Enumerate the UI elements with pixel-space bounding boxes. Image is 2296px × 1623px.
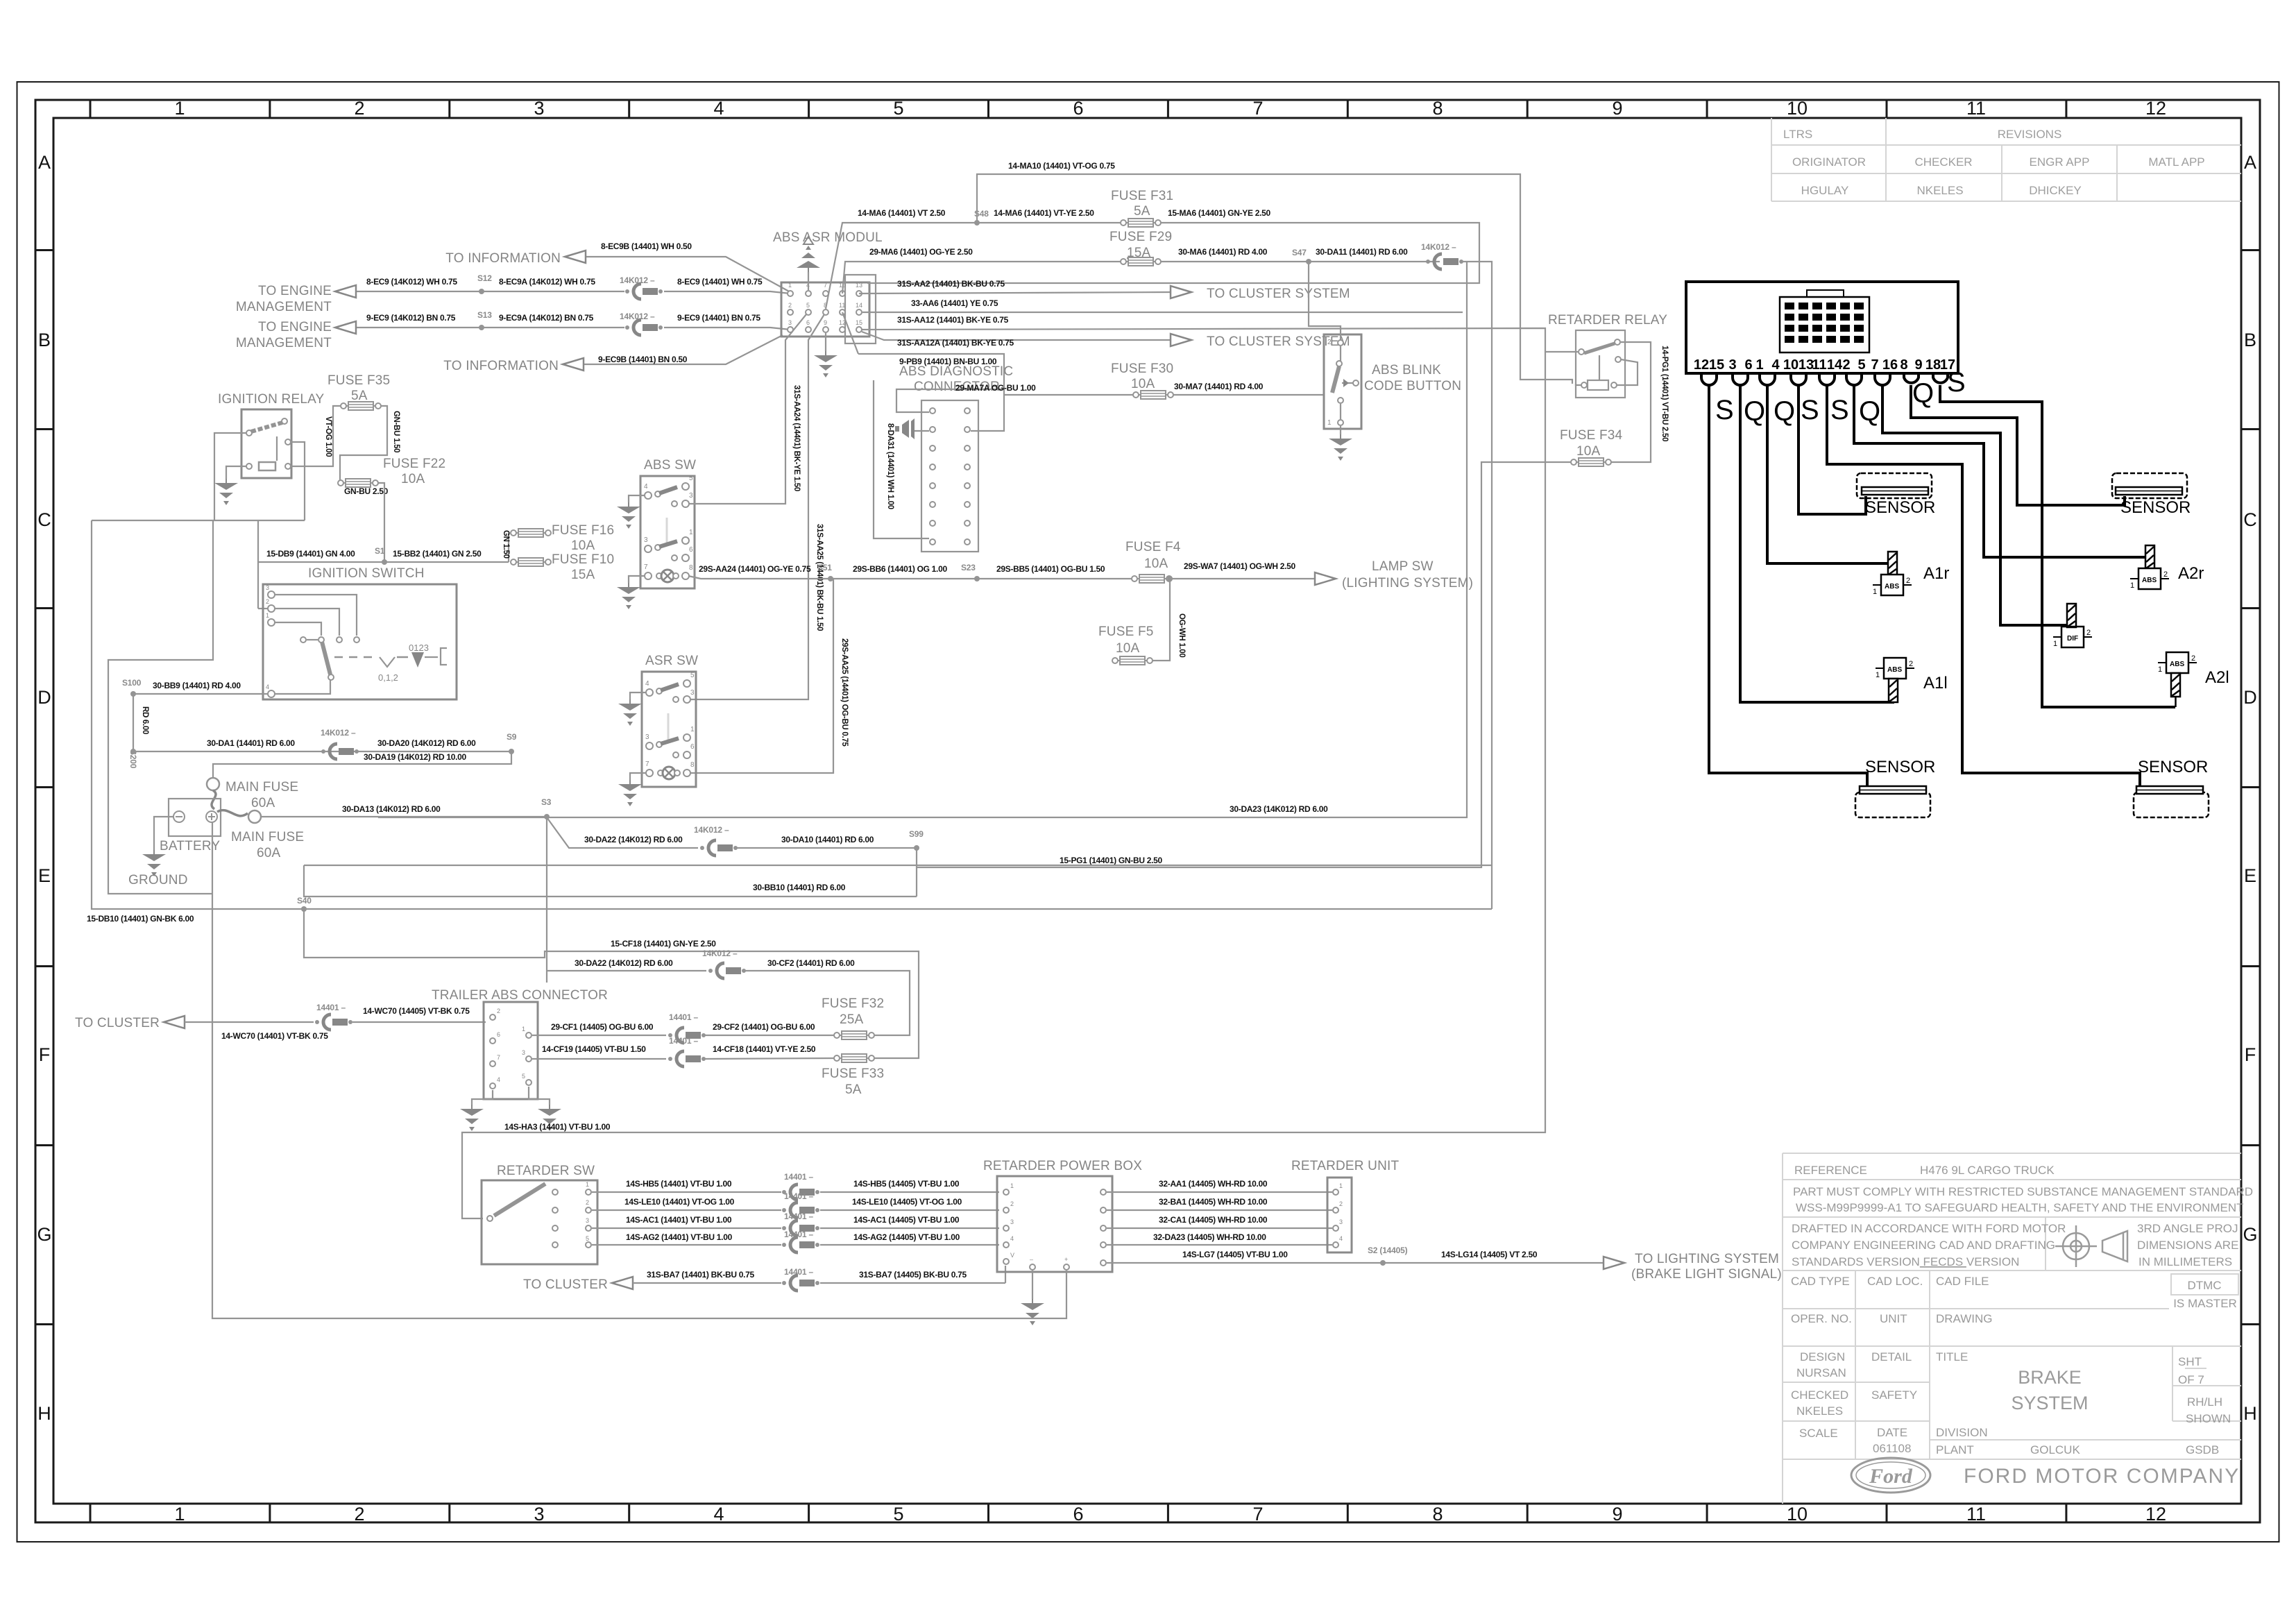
svg-text:IGNITION RELAY: IGNITION RELAY xyxy=(218,392,325,407)
svg-text:29-MA7A OG-BU 1.00: 29-MA7A OG-BU 1.00 xyxy=(955,383,1036,393)
svg-text:3: 3 xyxy=(689,492,693,500)
S3 down and 30-DA22/30-DA10 line xyxy=(547,817,917,983)
svg-text:5: 5 xyxy=(522,1073,525,1080)
svg-text:SAFETY: SAFETY xyxy=(1871,1388,1917,1402)
svg-text:8-EC9A (14K012) WH 0.75: 8-EC9A (14K012) WH 0.75 xyxy=(499,277,595,287)
svg-text:14401 –: 14401 – xyxy=(669,1036,699,1046)
svg-text:6: 6 xyxy=(1073,1504,1083,1524)
svg-text:14S-LG7 (14405) VT-BU 1.00: 14S-LG7 (14405) VT-BU 1.00 xyxy=(1182,1250,1288,1259)
relay switch-in wire to 750 line xyxy=(214,433,246,520)
svg-text:FUSE F5: FUSE F5 xyxy=(1098,624,1154,639)
wire 9-EC9B to information xyxy=(582,335,783,364)
svg-text:4: 4 xyxy=(645,680,649,688)
svg-text:ABS SW: ABS SW xyxy=(644,458,696,473)
wire 30-MA6 from F29 to S47 xyxy=(1160,261,1440,262)
wire 31S-AA24 from ABS SW pin3 up to module xyxy=(688,314,806,504)
svg-text:2: 2 xyxy=(2086,629,2091,637)
svg-text:REFERENCE: REFERENCE xyxy=(1794,1164,1867,1177)
svg-text:30-DA11 (14401) RD 6.00: 30-DA11 (14401) RD 6.00 xyxy=(1316,247,1408,257)
svg-text:1: 1 xyxy=(1010,1182,1014,1189)
power box plus wire to long bottom line xyxy=(212,822,1066,1318)
svg-text:S: S xyxy=(1830,395,1849,425)
svg-text:30-MA6 (14401) RD 4.00: 30-MA6 (14401) RD 4.00 xyxy=(1178,247,1268,257)
svg-text:G: G xyxy=(2243,1224,2257,1245)
svg-text:9-EC9 (14401) BN 0.75: 9-EC9 (14401) BN 0.75 xyxy=(677,313,760,323)
svg-text:TO INFORMATION: TO INFORMATION xyxy=(443,359,559,373)
svg-text:CAD TYPE: CAD TYPE xyxy=(1791,1275,1850,1288)
dashed selector line xyxy=(334,656,378,658)
svg-text:29S-AA25 (14401) OG-BU 0.75: 29S-AA25 (14401) OG-BU 0.75 xyxy=(840,638,849,747)
svg-text:15: 15 xyxy=(1709,357,1724,373)
svg-text:14-MA10 (14401) VT-OG 0.75: 14-MA10 (14401) VT-OG 0.75 xyxy=(1008,161,1115,171)
wire 31S-AA2 from pin 13 to cluster arrow xyxy=(859,292,1172,294)
wire 31S-AA25 module to ASR SW xyxy=(690,314,824,699)
svg-text:SENSOR: SENSOR xyxy=(2120,498,2191,517)
svg-text:32-BA1 (14405) WH-RD 10.00: 32-BA1 (14405) WH-RD 10.00 xyxy=(1159,1197,1268,1207)
trailer connector grounds xyxy=(472,1087,550,1105)
svg-text:H: H xyxy=(37,1403,51,1424)
svg-text:14-PG1 (14401) VT-BU 2.50: 14-PG1 (14401) VT-BU 2.50 xyxy=(1660,346,1669,441)
svg-text:10A: 10A xyxy=(1576,444,1601,459)
svg-text:9-EC9A (14K012) BN 0.75: 9-EC9A (14K012) BN 0.75 xyxy=(499,313,594,323)
svg-text:15-DB10 (14401) GN-BK 6.00: 15-DB10 (14401) GN-BK 6.00 xyxy=(87,914,194,924)
wire pins 7/16 to valve DIF xyxy=(1882,385,2068,625)
svg-text:A2r: A2r xyxy=(2178,564,2204,583)
battery xyxy=(169,799,221,836)
svg-text:12: 12 xyxy=(2145,98,2166,119)
svg-text:GN-BU 2.50: GN-BU 2.50 xyxy=(344,486,389,496)
svg-text:TO CLUSTER SYSTEM: TO CLUSTER SYSTEM xyxy=(1207,287,1350,301)
svg-text:6: 6 xyxy=(690,743,695,751)
svg-text:1: 1 xyxy=(689,529,693,536)
svg-text:2: 2 xyxy=(788,302,792,309)
wires power box to retarder unit xyxy=(1107,1192,1332,1245)
svg-text:IS MASTER: IS MASTER xyxy=(2173,1297,2237,1310)
svg-text:0123: 0123 xyxy=(409,643,429,653)
svg-text:A: A xyxy=(2244,152,2256,173)
svg-text:S: S xyxy=(1715,395,1734,425)
svg-text:A: A xyxy=(38,152,51,173)
svg-text:2: 2 xyxy=(354,1504,364,1524)
wire 30-DA23 vertical branch xyxy=(379,262,1467,817)
svg-text:31S-BA7 (14401) BK-BU 0.75: 31S-BA7 (14401) BK-BU 0.75 xyxy=(647,1270,755,1280)
30-DA22 / 30-CF2 wire to fuse F32 xyxy=(547,971,910,1035)
wire 29-MA6 diagonal from pin 10 to fuse F29 xyxy=(842,262,1122,294)
svg-text:30-BB9 (14401) RD 4.00: 30-BB9 (14401) RD 4.00 xyxy=(153,681,241,690)
svg-text:A1r: A1r xyxy=(1923,564,1949,583)
svg-text:14401 –: 14401 – xyxy=(784,1172,814,1182)
svg-text:(LIGHTING SYSTEM): (LIGHTING SYSTEM) xyxy=(1342,576,1473,590)
svg-text:CHECKER: CHECKER xyxy=(1914,155,1972,169)
svg-text:10: 10 xyxy=(1787,1504,1808,1524)
svg-text:8: 8 xyxy=(1432,98,1443,119)
svg-text:DIMENSIONS ARE: DIMENSIONS ARE xyxy=(2137,1239,2238,1252)
svg-text:TRAILER ABS CONNECTOR: TRAILER ABS CONNECTOR xyxy=(432,988,608,1003)
svg-text:1: 1 xyxy=(174,1504,185,1524)
relay ground xyxy=(226,466,246,479)
svg-text:0,1,2: 0,1,2 xyxy=(378,672,398,683)
svg-text:14-MA6 (14401) VT 2.50: 14-MA6 (14401) VT 2.50 xyxy=(858,208,946,218)
svg-text:061108: 061108 xyxy=(1873,1442,1911,1455)
svg-text:15-MA6 (14401) GN-YE 2.50: 15-MA6 (14401) GN-YE 2.50 xyxy=(1168,208,1271,218)
svg-text:14: 14 xyxy=(1827,357,1843,373)
svg-text:IGNITION SWITCH: IGNITION SWITCH xyxy=(308,566,425,581)
wire 30-MA7 from F30 to blink button xyxy=(1173,394,1324,396)
ABS blink code button xyxy=(1324,334,1361,429)
svg-text:14S-LE10 (14401) VT-OG 1.00: 14S-LE10 (14401) VT-OG 1.00 xyxy=(624,1197,735,1207)
svg-text:7: 7 xyxy=(1252,1504,1263,1524)
svg-text:2: 2 xyxy=(1339,1200,1343,1207)
svg-text:12: 12 xyxy=(1694,357,1709,373)
svg-text:SENSOR: SENSOR xyxy=(1865,758,1935,776)
3rd angle projection symbol xyxy=(2055,1225,2127,1267)
svg-text:S: S xyxy=(1947,367,1966,398)
svg-text:GN 1.50: GN 1.50 xyxy=(502,530,510,559)
svg-text:TO INFORMATION: TO INFORMATION xyxy=(445,251,561,266)
svg-text:(BRAKE LIGHT SIGNAL): (BRAKE LIGHT SIGNAL) xyxy=(1631,1267,1782,1282)
svg-text:1: 1 xyxy=(690,726,695,733)
svg-text:GOLCUK: GOLCUK xyxy=(2030,1443,2080,1456)
svg-text:11: 11 xyxy=(1966,1504,1986,1524)
wire F4 junction down to fuse F5 xyxy=(1152,579,1170,661)
svg-text:ASR SW: ASR SW xyxy=(645,654,698,668)
svg-text:5A: 5A xyxy=(1134,204,1150,219)
svg-text:11: 11 xyxy=(1812,357,1826,373)
svg-text:1: 1 xyxy=(1755,357,1763,373)
svg-text:32-AA1 (14405) WH-RD 10.00: 32-AA1 (14405) WH-RD 10.00 xyxy=(1159,1179,1268,1189)
svg-text:NKELES: NKELES xyxy=(1796,1404,1843,1418)
svg-text:ENGR APP: ENGR APP xyxy=(2030,155,2090,169)
svg-text:3: 3 xyxy=(534,1504,544,1524)
row ticks left and right xyxy=(35,249,53,251)
svg-text:5: 5 xyxy=(806,302,810,309)
svg-text:2: 2 xyxy=(1010,1200,1014,1207)
svg-text:8: 8 xyxy=(689,564,693,572)
svg-text:REVISIONS: REVISIONS xyxy=(1998,128,2062,141)
svg-text:SHOWN: SHOWN xyxy=(2186,1412,2231,1425)
svg-text:STANDARDS VERSION FECDS VERSIO: STANDARDS VERSION FECDS VERSION xyxy=(1792,1255,2019,1268)
svg-text:BATTERY: BATTERY xyxy=(160,839,220,853)
relay coil right small loop xyxy=(1617,359,1638,385)
svg-text:–: – xyxy=(1030,1256,1033,1263)
valve DIF xyxy=(2067,604,2076,627)
svg-text:ABS BLINK: ABS BLINK xyxy=(1372,363,1441,377)
svg-text:30-DA10 (14401) RD 6.00: 30-DA10 (14401) RD 6.00 xyxy=(781,835,874,844)
wire pins 2/5 to valve A2r xyxy=(1854,385,2147,557)
svg-text:8: 8 xyxy=(1432,1504,1443,1524)
wire pins 3/6 to valve A1l xyxy=(1740,385,1894,702)
svg-text:S51: S51 xyxy=(817,563,832,572)
relay mid pin wire to 750 line xyxy=(291,442,305,520)
svg-text:9: 9 xyxy=(1612,1504,1622,1524)
svg-text:CHECKED: CHECKED xyxy=(1791,1388,1848,1402)
svg-text:E: E xyxy=(38,865,51,886)
svg-text:2: 2 xyxy=(266,598,269,605)
svg-text:S: S xyxy=(1801,395,1819,425)
arrow to engine management 2 xyxy=(335,321,356,334)
S40 down branch to 15-CF18 line xyxy=(304,909,919,1058)
svg-text:29S-BB5 (14401) OG-BU 1.50: 29S-BB5 (14401) OG-BU 1.50 xyxy=(996,564,1105,574)
14S-LG7 wire with S2 to lighting arrow xyxy=(1107,1262,1604,1264)
svg-text:1: 1 xyxy=(2053,640,2057,648)
wire 29S-AA25 S51 down to ASR SW xyxy=(690,579,833,773)
wire F35 right down to F22 xyxy=(340,406,387,483)
svg-text:FUSE F10: FUSE F10 xyxy=(552,552,614,567)
wire 30-DA13 to S3 xyxy=(261,816,547,817)
svg-text:10: 10 xyxy=(1783,357,1798,373)
svg-text:TITLE: TITLE xyxy=(1936,1350,1968,1363)
svg-text:MANAGEMENT: MANAGEMENT xyxy=(236,336,332,350)
svg-text:TO LIGHTING SYSTEM: TO LIGHTING SYSTEM xyxy=(1635,1252,1779,1266)
trailer connector box xyxy=(484,1002,538,1099)
svg-text:CODE BUTTON: CODE BUTTON xyxy=(1364,379,1461,393)
svg-text:10A: 10A xyxy=(1131,377,1155,391)
svg-text:SENSOR: SENSOR xyxy=(2138,758,2208,776)
svg-text:CAD FILE: CAD FILE xyxy=(1936,1275,1989,1288)
svg-text:7: 7 xyxy=(1252,98,1263,119)
rotary lever xyxy=(322,642,330,674)
svg-text:1: 1 xyxy=(522,1026,525,1033)
wire F34 left to 15-PG1 line xyxy=(917,462,1572,867)
blink button ground xyxy=(1340,426,1341,434)
svg-text:IN MILLIMETERS: IN MILLIMETERS xyxy=(2138,1255,2232,1268)
svg-text:FUSE F31: FUSE F31 xyxy=(1111,189,1173,203)
switch internal wires xyxy=(275,595,357,694)
arrow to engine management 1 xyxy=(335,285,356,298)
svg-text:9: 9 xyxy=(1612,98,1622,119)
svg-text:S13: S13 xyxy=(477,310,492,320)
svg-text:10A: 10A xyxy=(401,472,425,486)
svg-text:8-EC9 (14401) WH 0.75: 8-EC9 (14401) WH 0.75 xyxy=(677,277,763,287)
svg-text:FUSE F30: FUSE F30 xyxy=(1111,362,1173,376)
svg-text:FUSE F33: FUSE F33 xyxy=(822,1067,884,1081)
inner 18-pos connector xyxy=(1780,290,1869,352)
svg-text:GSDB: GSDB xyxy=(2186,1443,2219,1456)
wire pins 8/9 to top-right sensor xyxy=(1911,385,2125,505)
svg-text:1: 1 xyxy=(788,282,792,289)
svg-text:13: 13 xyxy=(856,282,862,289)
svg-text:RETARDER SW: RETARDER SW xyxy=(497,1164,595,1178)
svg-text:Q: Q xyxy=(1859,396,1880,427)
svg-text:14: 14 xyxy=(856,302,862,309)
svg-text:SYSTEM: SYSTEM xyxy=(2011,1393,2088,1413)
S100 wire 30-BB9 xyxy=(133,693,268,695)
svg-text:TO CLUSTER: TO CLUSTER xyxy=(523,1277,608,1292)
svg-text:14S-AC1 (14401) VT-BU 1.00: 14S-AC1 (14401) VT-BU 1.00 xyxy=(626,1215,732,1225)
svg-text:Q: Q xyxy=(1744,396,1765,427)
svg-text:14401 –: 14401 – xyxy=(784,1267,814,1277)
svg-text:30-CF2 (14401) RD 6.00: 30-CF2 (14401) RD 6.00 xyxy=(767,958,855,968)
module pins rows xyxy=(788,291,862,332)
svg-text:2: 2 xyxy=(497,1008,500,1014)
svg-text:DATE: DATE xyxy=(1877,1426,1907,1439)
svg-text:2: 2 xyxy=(1327,339,1332,346)
S40 rectangle top line xyxy=(304,865,1492,866)
svg-text:8: 8 xyxy=(1900,357,1907,373)
svg-text:MANAGEMENT: MANAGEMENT xyxy=(236,300,332,314)
svg-text:15A: 15A xyxy=(571,568,595,582)
svg-text:14-WC70 (14405) VT-BK 0.75: 14-WC70 (14405) VT-BK 0.75 xyxy=(363,1006,470,1016)
svg-text:OPER. NO.: OPER. NO. xyxy=(1791,1312,1852,1325)
svg-text:UNIT: UNIT xyxy=(1880,1312,1907,1325)
svg-text:S1: S1 xyxy=(375,546,385,556)
svg-text:14S-AC1 (14405) VT-BU 1.00: 14S-AC1 (14405) VT-BU 1.00 xyxy=(853,1215,960,1225)
module bottom ground xyxy=(825,333,826,351)
svg-text:RETARDER POWER BOX: RETARDER POWER BOX xyxy=(983,1159,1142,1173)
svg-text:32-DA23 (14405) WH-RD 10.00: 32-DA23 (14405) WH-RD 10.00 xyxy=(1153,1232,1266,1242)
svg-text:3: 3 xyxy=(645,733,649,741)
svg-text:H: H xyxy=(2243,1403,2257,1424)
wire 30-DA19 xyxy=(213,751,511,779)
blink button top wire to S47 xyxy=(1309,262,1341,340)
top-left sensor xyxy=(1857,473,1932,498)
svg-text:29-CF1 (14405) OG-BU 6.00: 29-CF1 (14405) OG-BU 6.00 xyxy=(551,1022,654,1032)
svg-text:A2l: A2l xyxy=(2205,668,2229,687)
TO CLUSTER arrow 2 and 31S-BA7 xyxy=(612,1277,633,1289)
svg-text:Ford: Ford xyxy=(1869,1465,1913,1488)
svg-text:7: 7 xyxy=(824,282,827,289)
Ford logo xyxy=(1851,1458,1930,1493)
column numbers xyxy=(174,98,2166,1524)
wire pins 18/17 to valve A2l xyxy=(1940,385,2175,707)
svg-text:6: 6 xyxy=(806,319,810,326)
svg-text:30-MA7 (14401) RD 4.00: 30-MA7 (14401) RD 4.00 xyxy=(1174,382,1264,391)
svg-text:1: 1 xyxy=(266,612,269,619)
relay contact out to 14-PG1 vertical xyxy=(1610,342,1651,462)
svg-text:DTMC: DTMC xyxy=(2187,1279,2221,1292)
svg-text:4: 4 xyxy=(1771,357,1780,373)
svg-text:3: 3 xyxy=(534,98,544,119)
module top ground feed xyxy=(808,272,809,290)
battery minus to ground xyxy=(154,817,173,850)
svg-text:31S-AA2 (14401) BK-BU 0.75: 31S-AA2 (14401) BK-BU 0.75 xyxy=(897,279,1005,289)
pin numbers under block xyxy=(1694,357,1955,373)
svg-text:7: 7 xyxy=(497,1054,500,1061)
svg-text:FUSE F29: FUSE F29 xyxy=(1109,230,1172,244)
svg-text:E: E xyxy=(2244,865,2256,886)
svg-text:9: 9 xyxy=(1914,357,1922,373)
svg-text:3: 3 xyxy=(690,689,695,697)
svg-text:30-DA19 (14K012) RD 10.00: 30-DA19 (14K012) RD 10.00 xyxy=(364,752,467,762)
svg-text:SCALE: SCALE xyxy=(1799,1427,1838,1440)
svg-text:S47: S47 xyxy=(1292,248,1307,257)
wire S51 to S23 to fuse F4 xyxy=(831,578,1133,579)
svg-text:30-DA20 (14K012) RD 6.00: 30-DA20 (14K012) RD 6.00 xyxy=(377,738,476,748)
svg-text:TO CLUSTER: TO CLUSTER xyxy=(75,1016,160,1030)
fuse F10 xyxy=(511,558,551,566)
svg-text:NURSAN: NURSAN xyxy=(1796,1366,1846,1379)
svg-text:WSS-M99P9999-A1 TO SAFEGUARD: WSS-M99P9999-A1 TO SAFEGUARD HEALTH, SAF… xyxy=(1796,1201,2244,1214)
svg-text:RH/LH: RH/LH xyxy=(2187,1395,2222,1409)
svg-text:3: 3 xyxy=(644,536,648,544)
svg-text:ABS ASR MODUL: ABS ASR MODUL xyxy=(773,230,883,245)
svg-text:6: 6 xyxy=(1744,357,1752,373)
svg-text:ORIGINATOR: ORIGINATOR xyxy=(1792,155,1866,169)
svg-text:14-CF19 (14405) VT-BU 1.50: 14-CF19 (14405) VT-BU 1.50 xyxy=(542,1044,646,1054)
svg-text:14401 –: 14401 – xyxy=(784,1212,814,1221)
svg-text:C: C xyxy=(37,509,51,530)
wire F35 left to relay coil right pin xyxy=(291,406,341,466)
svg-text:B: B xyxy=(2244,330,2256,350)
svg-text:FUSE F22: FUSE F22 xyxy=(383,457,445,471)
svg-text:S23: S23 xyxy=(961,563,976,572)
svg-text:MAIN FUSE: MAIN FUSE xyxy=(226,780,298,794)
svg-text:30-DA13 (14K012) RD 6.00: 30-DA13 (14K012) RD 6.00 xyxy=(342,804,441,814)
svg-text:4: 4 xyxy=(1010,1235,1014,1242)
svg-text:9: 9 xyxy=(824,319,827,326)
svg-text:PART MUST COMPLY WITH REST: PART MUST COMPLY WITH RESTRICTED SUBSTAN… xyxy=(1793,1185,2253,1198)
wire 31S-AA12A from pin 15 diagonal to cluster arrow 2 xyxy=(862,332,1172,340)
svg-text:29S-BB6 (14401) OG 1.00: 29S-BB6 (14401) OG 1.00 xyxy=(853,564,947,574)
selector arrow symbol xyxy=(411,652,424,668)
svg-text:S99: S99 xyxy=(909,829,924,839)
wire 29S-WA7 to lamp sw arrow xyxy=(1171,578,1316,579)
svg-text:14-CF18 (14401) VT-YE 2.50: 14-CF18 (14401) VT-YE 2.50 xyxy=(713,1044,816,1054)
svg-text:15-CF18 (14401) GN-YE 2.50: 15-CF18 (14401) GN-YE 2.50 xyxy=(611,939,716,949)
svg-text:1: 1 xyxy=(174,98,185,119)
relay coil left feed from 14-MA10 xyxy=(1576,384,1581,385)
svg-text:1: 1 xyxy=(586,1181,589,1188)
svg-text:DIF: DIF xyxy=(2067,635,2078,643)
svg-text:A1l: A1l xyxy=(1923,674,1948,692)
svg-text:30-DA23 (14K012) RD 6.00: 30-DA23 (14K012) RD 6.00 xyxy=(1230,804,1328,814)
svg-text:15-PG1 (14401) GN-BU 2.50: 15-PG1 (14401) GN-BU 2.50 xyxy=(1060,856,1163,865)
svg-text:9-EC9B (14401) BN 0.50: 9-EC9B (14401) BN 0.50 xyxy=(598,355,688,364)
svg-text:11: 11 xyxy=(1966,98,1986,119)
svg-text:COMPANY ENGINEERING CAD AND DR: COMPANY ENGINEERING CAD AND DRAFTING xyxy=(1792,1239,2055,1252)
svg-text:ABS DIAGNOSTIC: ABS DIAGNOSTIC xyxy=(899,364,1013,379)
TO CLUSTER arrow left xyxy=(164,1016,185,1028)
svg-text:3: 3 xyxy=(788,319,792,326)
svg-text:14K012 –: 14K012 – xyxy=(1421,242,1456,252)
main fuse pigtail 2 xyxy=(217,810,248,816)
svg-text:DESIGN: DESIGN xyxy=(1800,1350,1845,1363)
svg-text:FUSE F34: FUSE F34 xyxy=(1560,428,1623,443)
valve A1l xyxy=(1876,658,1914,679)
diag connector outer routing xyxy=(874,380,1004,538)
svg-text:33-AA6 (14401) YE 0.75: 33-AA6 (14401) YE 0.75 xyxy=(911,298,998,308)
svg-text:6: 6 xyxy=(689,546,693,554)
svg-text:RD 6.00: RD 6.00 xyxy=(141,706,149,734)
svg-text:14K012 –: 14K012 – xyxy=(694,825,729,835)
svg-text:8: 8 xyxy=(690,761,695,769)
svg-text:D: D xyxy=(2243,687,2257,708)
valve A2l xyxy=(2158,652,2197,674)
svg-text:3: 3 xyxy=(522,1049,525,1056)
wire 15-MA6 from F31 looping back to module pin 14 xyxy=(862,223,1479,312)
svg-text:1: 1 xyxy=(1327,419,1332,427)
svg-text:Q: Q xyxy=(1912,378,1934,409)
svg-text:7: 7 xyxy=(644,563,648,571)
svg-text:18: 18 xyxy=(1925,357,1941,373)
svg-text:14401 –: 14401 – xyxy=(784,1191,814,1201)
svg-text:4: 4 xyxy=(644,483,648,491)
svg-text:14401 –: 14401 – xyxy=(316,1003,346,1012)
svg-text:MAIN FUSE: MAIN FUSE xyxy=(231,830,304,844)
wire 9-EC9 to engine management xyxy=(354,328,790,330)
svg-text:DHICKEY: DHICKEY xyxy=(2029,184,2082,197)
svg-text:FUSE F4: FUSE F4 xyxy=(1125,540,1181,554)
row letters xyxy=(37,152,2257,1424)
svg-text:9-EC9 (14K012) BN 0.75: 9-EC9 (14K012) BN 0.75 xyxy=(366,313,456,323)
svg-text:14-WC70 (14401) VT-BK 0.75: 14-WC70 (14401) VT-BK 0.75 xyxy=(221,1031,328,1041)
wire 8-EC9B to information xyxy=(584,257,790,292)
S100 vertical to S200 xyxy=(133,694,134,751)
title block bottom right xyxy=(1783,1153,2241,1504)
svg-text:NKELES: NKELES xyxy=(1916,184,1963,197)
svg-text:RETARDER UNIT: RETARDER UNIT xyxy=(1291,1159,1399,1173)
S99 vertical to 30-BB10 line xyxy=(916,848,917,897)
